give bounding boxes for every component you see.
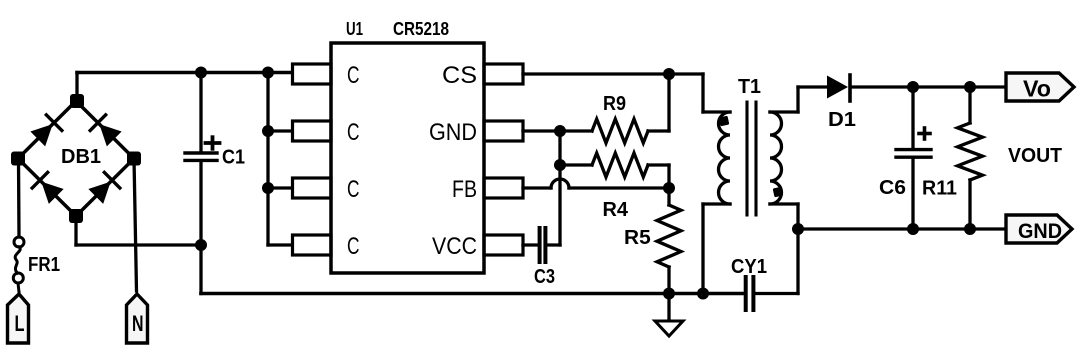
svg-text:R11: R11 <box>922 178 957 200</box>
svg-text:N: N <box>132 311 144 336</box>
svg-text:VCC: VCC <box>432 233 477 260</box>
svg-text:CY1: CY1 <box>731 256 767 278</box>
svg-text:C6: C6 <box>879 177 906 199</box>
svg-text:C3: C3 <box>534 266 555 288</box>
svg-text:C1: C1 <box>222 147 245 169</box>
svg-text:R5: R5 <box>624 227 651 249</box>
svg-text:C: C <box>347 176 360 203</box>
svg-text:C: C <box>347 62 360 89</box>
svg-text:R4: R4 <box>603 199 629 221</box>
svg-text:L: L <box>15 311 25 336</box>
svg-text:Vo: Vo <box>1023 76 1051 102</box>
svg-text:T1: T1 <box>738 76 761 98</box>
svg-text:D1: D1 <box>828 109 856 131</box>
svg-text:R9: R9 <box>603 93 626 115</box>
svg-text:CR5218: CR5218 <box>393 19 449 39</box>
svg-text:U1: U1 <box>346 19 363 39</box>
svg-text:C: C <box>347 119 360 146</box>
svg-text:VOUT: VOUT <box>1008 145 1062 167</box>
svg-text:DB1: DB1 <box>61 146 101 168</box>
svg-text:GND: GND <box>429 119 477 146</box>
svg-text:GND: GND <box>1018 220 1062 243</box>
svg-text:C: C <box>347 233 360 260</box>
svg-text:CS: CS <box>442 62 477 89</box>
svg-text:FR1: FR1 <box>28 254 60 276</box>
svg-text:FB: FB <box>452 176 477 203</box>
